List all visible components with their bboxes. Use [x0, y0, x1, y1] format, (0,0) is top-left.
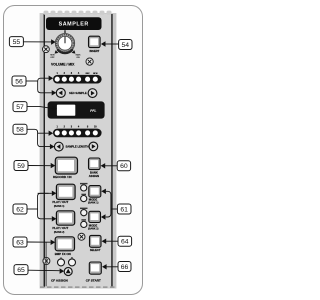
svg-text:REC: REC: [86, 73, 91, 75]
svg-text:OFF: OFF: [50, 57, 55, 59]
svg-text:BMP FX ON: BMP FX ON: [55, 252, 71, 256]
svg-text:63: 63: [16, 239, 24, 246]
svg-text:62: 62: [16, 206, 24, 213]
svg-text:(BANK 1): (BANK 1): [54, 205, 65, 208]
svg-text:(BANK 2): (BANK 2): [54, 231, 65, 234]
svg-text:BPM: BPM: [93, 73, 98, 75]
svg-text:BANK: BANK: [90, 170, 98, 174]
svg-text:66: 66: [121, 264, 129, 271]
svg-text:SELECT: SELECT: [90, 248, 101, 252]
svg-text:65: 65: [17, 267, 25, 274]
svg-text:59: 59: [17, 163, 25, 170]
svg-text:RECORD / IN: RECORD / IN: [53, 175, 72, 179]
svg-text:INSERT: INSERT: [89, 49, 99, 53]
svg-text:PLAY / OUT: PLAY / OUT: [52, 226, 68, 230]
svg-text:64: 64: [121, 239, 129, 246]
svg-text:CF ASSIGN: CF ASSIGN: [51, 278, 68, 282]
svg-text:SAMPLE LENGTH: SAMPLE LENGTH: [66, 145, 89, 149]
svg-text:61: 61: [120, 206, 128, 213]
svg-text:58: 58: [16, 127, 24, 134]
svg-text:PLAY / OUT: PLAY / OUT: [52, 200, 68, 204]
svg-text:ASSIGN: ASSIGN: [89, 174, 99, 178]
svg-text:CF START: CF START: [86, 278, 101, 282]
svg-text:PFL: PFL: [90, 109, 96, 113]
svg-text:57: 57: [16, 104, 24, 111]
svg-text:VOLUME / MIX: VOLUME / MIX: [51, 62, 75, 66]
svg-text:54: 54: [122, 42, 130, 49]
svg-text:55: 55: [13, 39, 21, 46]
svg-text:(BANK 2): (BANK 2): [88, 228, 99, 231]
svg-text:SAMPLER: SAMPLER: [59, 22, 89, 28]
svg-text:SEC SAMPLE: SEC SAMPLE: [69, 91, 87, 95]
svg-text:56: 56: [15, 78, 23, 85]
svg-text:60: 60: [120, 163, 128, 170]
svg-text:ON: ON: [76, 57, 80, 59]
svg-text:(BANK 1): (BANK 1): [88, 201, 99, 204]
